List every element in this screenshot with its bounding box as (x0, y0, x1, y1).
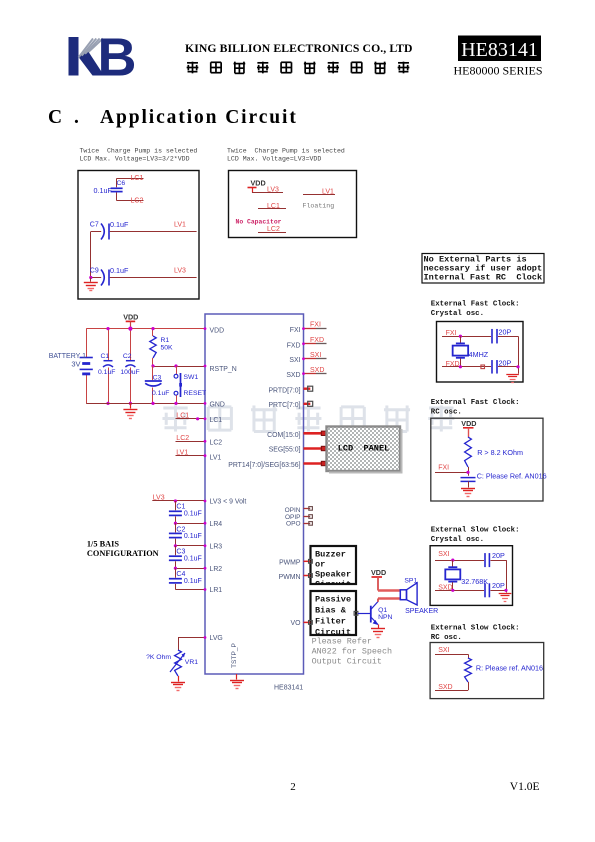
svg-text:C4: C4 (176, 571, 185, 578)
svg-text:C2: C2 (123, 353, 132, 360)
svg-text:HE80000 SERIES: HE80000 SERIES (453, 64, 542, 78)
svg-text:SEG[55:0]: SEG[55:0] (269, 447, 301, 454)
svg-text:C1: C1 (101, 353, 110, 360)
svg-text:LC1: LC1 (176, 413, 189, 420)
svg-text:SXI: SXI (438, 647, 449, 654)
svg-text:AN022 for Speech: AN022 for Speech (312, 647, 392, 657)
svg-text:LVG: LVG (210, 635, 223, 642)
svg-text:LV1: LV1 (176, 449, 188, 456)
svg-text:C6: C6 (117, 180, 126, 187)
svg-text:C: Please Ref. AN016: C: Please Ref. AN016 (477, 472, 547, 481)
svg-text:.: . (74, 107, 79, 128)
svg-text:FXI: FXI (446, 330, 457, 337)
svg-text:CONFIGURATION: CONFIGURATION (87, 549, 159, 558)
svg-text:Passive: Passive (315, 595, 351, 605)
svg-text:SXI: SXI (438, 551, 449, 558)
svg-text:PRTC[7:0]: PRTC[7:0] (268, 402, 300, 409)
svg-text:External Fast Clock:: External Fast Clock: (431, 399, 520, 407)
svg-text:0.1uF: 0.1uF (110, 266, 129, 275)
svg-text:SXD: SXD (286, 372, 300, 379)
svg-text:C3: C3 (153, 375, 162, 382)
svg-text:LV1: LV1 (174, 222, 186, 229)
svg-text:LR1: LR1 (210, 587, 223, 594)
svg-text:C7: C7 (90, 222, 99, 229)
svg-text:RC osc.: RC osc. (431, 634, 462, 642)
svg-text:Floating: Floating (303, 203, 335, 210)
svg-text:LCD PANEL: LCD PANEL (338, 444, 390, 454)
svg-text:NPN: NPN (378, 614, 392, 621)
svg-text:LCD Max. Voltage=LV3=3/2*VDD: LCD Max. Voltage=LV3=3/2*VDD (80, 156, 190, 163)
svg-text:FXI: FXI (290, 327, 301, 334)
svg-text:C1: C1 (176, 504, 185, 511)
svg-text:0.1uF: 0.1uF (152, 390, 169, 397)
svg-text:0.1uF: 0.1uF (184, 533, 202, 540)
svg-text:SXI: SXI (310, 352, 321, 359)
svg-text:VO: VO (291, 620, 302, 627)
svg-text:VDD: VDD (371, 568, 386, 577)
svg-text:Internal Fast RC Clock: Internal Fast RC Clock (424, 273, 543, 283)
svg-text:LC1: LC1 (267, 203, 280, 210)
svg-text:?K Ohm: ?K Ohm (146, 654, 171, 661)
svg-text:PRTD[7:0]: PRTD[7:0] (268, 387, 300, 394)
svg-text:SXD: SXD (438, 684, 452, 691)
svg-text:PWMP: PWMP (279, 560, 301, 567)
svg-text:LV1: LV1 (322, 189, 334, 196)
svg-text:0.1uF: 0.1uF (184, 556, 202, 563)
svg-text:V1.0E: V1.0E (510, 781, 540, 793)
svg-text:FXI: FXI (438, 465, 449, 472)
svg-text:SPEAKER: SPEAKER (405, 608, 438, 615)
svg-text:Twice Charge Pump is selected: Twice Charge Pump is selected (80, 148, 198, 155)
svg-text:20P: 20P (499, 328, 512, 337)
svg-text:Speaker: Speaker (315, 570, 351, 580)
svg-text:R: Please ref. AN016: R: Please ref. AN016 (476, 664, 543, 673)
svg-text:0.1uF: 0.1uF (110, 220, 129, 229)
svg-text:2: 2 (290, 781, 296, 793)
svg-text:C: C (48, 107, 62, 128)
svg-text:LV1: LV1 (210, 455, 222, 462)
svg-text:No Capacitor: No Capacitor (236, 219, 282, 226)
svg-text:Bias &: Bias & (315, 606, 347, 616)
svg-text:LC2: LC2 (131, 197, 144, 204)
svg-text:or: or (315, 560, 325, 570)
svg-text:LC2: LC2 (176, 435, 189, 442)
svg-text:3V: 3V (71, 359, 80, 368)
svg-text:LC1: LC1 (210, 417, 223, 424)
svg-text:C9: C9 (90, 268, 99, 275)
svg-text:LR4: LR4 (210, 521, 223, 528)
svg-text:4MHZ: 4MHZ (469, 350, 489, 359)
svg-text:LC2: LC2 (210, 440, 223, 447)
svg-text:PWMN: PWMN (279, 574, 301, 581)
svg-text:Filter: Filter (315, 617, 346, 627)
svg-text:Crystal osc.: Crystal osc. (431, 310, 484, 318)
svg-text:KING BILLION ELECTRONICS CO.,: KING BILLION ELECTRONICS CO., LTD (185, 42, 413, 55)
svg-text:20P: 20P (492, 581, 505, 590)
svg-text:50K: 50K (161, 344, 174, 351)
svg-text:LC2: LC2 (267, 226, 280, 233)
svg-text:GND: GND (210, 402, 225, 409)
svg-text:100uF: 100uF (120, 369, 139, 376)
svg-text:SW1: SW1 (184, 374, 199, 381)
svg-text:1/5 BAIS: 1/5 BAIS (87, 540, 119, 549)
svg-text:External Slow Clock:: External Slow Clock: (431, 624, 520, 632)
svg-text:LC1: LC1 (131, 175, 144, 182)
svg-text:SXD: SXD (310, 367, 324, 374)
svg-text:HE83141: HE83141 (461, 39, 538, 61)
svg-text:LV3: LV3 (174, 268, 186, 275)
svg-text:SXI: SXI (289, 357, 300, 364)
svg-text:LV3: LV3 (267, 187, 279, 194)
svg-text:HE83141: HE83141 (274, 685, 303, 692)
svg-text:VDD: VDD (210, 327, 225, 334)
svg-text:FXI: FXI (310, 322, 321, 329)
svg-text:OPO: OPO (286, 521, 300, 528)
svg-text:RC osc.: RC osc. (431, 409, 462, 417)
svg-text:B: B (98, 28, 137, 88)
svg-text:0.1uF: 0.1uF (94, 186, 113, 195)
svg-text:FXD: FXD (287, 342, 301, 349)
svg-text:TSTP_P: TSTP_P (231, 642, 238, 668)
svg-text:R > 8.2 KOhm: R > 8.2 KOhm (477, 448, 523, 457)
svg-text:Twice Charge Pump is selected: Twice Charge Pump is selected (227, 148, 345, 155)
svg-text:Please Refer: Please Refer (312, 637, 372, 647)
svg-text:Buzzer: Buzzer (315, 550, 346, 560)
svg-text:LCD Max. Voltage=LV3=VDD: LCD Max. Voltage=LV3=VDD (227, 156, 321, 163)
svg-text:LR2: LR2 (210, 566, 223, 573)
svg-text:VDD: VDD (461, 419, 476, 428)
svg-text:R1: R1 (161, 337, 170, 344)
svg-text:VDD: VDD (123, 312, 138, 321)
svg-text:External Fast Clock:: External Fast Clock: (431, 301, 520, 309)
svg-text:PRT14[7:0]/SEG[63:56]: PRT14[7:0]/SEG[63:56] (228, 462, 300, 469)
svg-text:0.1uF: 0.1uF (184, 578, 202, 585)
svg-text:LR3: LR3 (210, 543, 223, 550)
svg-text:Crystal osc.: Crystal osc. (431, 536, 484, 544)
svg-text:LV3 < 9 Volt: LV3 < 9 Volt (210, 499, 247, 506)
svg-text:RESET: RESET (184, 390, 207, 397)
svg-text:COM[15:0]: COM[15:0] (267, 432, 300, 439)
svg-text:FXD: FXD (310, 337, 324, 344)
svg-text:Output Circuit: Output Circuit (312, 657, 382, 667)
svg-text:External Slow Clock:: External Slow Clock: (431, 527, 520, 535)
svg-text:C3: C3 (176, 549, 185, 556)
svg-text:20P: 20P (499, 359, 512, 368)
svg-text:20P: 20P (492, 551, 505, 560)
svg-text:0.1uF: 0.1uF (184, 511, 202, 518)
svg-text:0.1uF: 0.1uF (98, 369, 115, 376)
svg-text:VR1: VR1 (185, 659, 198, 666)
svg-text:SP1: SP1 (404, 577, 417, 584)
svg-text:VDD: VDD (251, 179, 266, 188)
svg-text:RSTP_N: RSTP_N (210, 366, 237, 373)
svg-text:Application Circuit: Application Circuit (100, 107, 298, 128)
